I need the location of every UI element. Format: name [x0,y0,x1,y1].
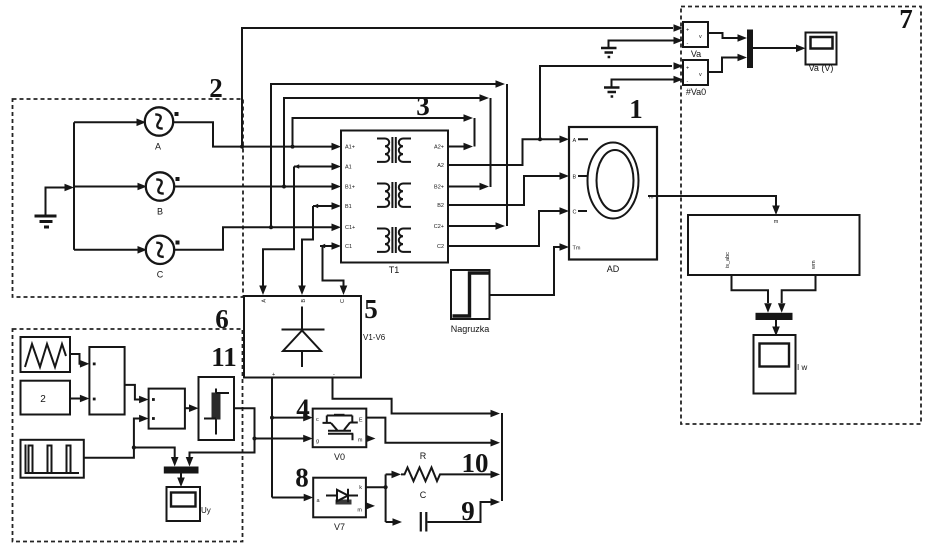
scope I w [754,335,808,394]
svg-text:C2: C2 [437,244,444,250]
svg-text:C: C [340,299,346,303]
wire comparator to sum [125,385,149,403]
svg-text:B2: B2 [437,203,444,209]
load block Nagruzka [451,270,490,334]
svg-text:B2+: B2+ [434,185,444,191]
wire Nagruzka to motor Tm [490,243,570,295]
V7 m port stub [366,502,376,510]
svg-text:B: B [301,299,307,303]
wire loop phase C to C2+ [271,80,507,230]
svg-text:B1: B1 [345,204,352,210]
wire pulse generator to sum and mux [84,415,179,467]
wire loop phase A to A2+ [293,114,475,150]
svg-text:Nagruzka: Nagruzka [451,324,490,334]
svg-text:A: A [573,138,577,144]
svg-text:A: A [155,142,161,152]
svg-text:#Va0: #Va0 [686,87,706,97]
wire source B to T1 B1+ [173,183,341,191]
T1 winding 3 [377,227,411,253]
svg-text:8: 8 [295,463,309,493]
svg-text:V7: V7 [334,522,345,532]
svg-text:E: E [359,418,363,424]
scope Va (V) [806,33,837,74]
svg-text:C1: C1 [345,244,352,250]
wire sawtooth to comparator [70,354,89,368]
wire R to node [443,471,500,479]
comparator block [89,347,124,415]
wire T1 C2 to motor C [448,207,569,246]
mux (voltages) [747,30,753,69]
svg-text:1: 1 [629,94,643,124]
svg-text:A: A [262,299,268,303]
svg-text:Uy: Uy [201,506,211,515]
wire T1 B2 to motor B [448,172,569,205]
svg-text:B: B [157,207,163,217]
wire sum to relay [185,404,199,412]
svg-text:is_abc: is_abc [725,252,731,268]
wire rectifier minus to node [333,378,501,418]
voltmeter #Va0 [683,60,708,97]
wire phase A to Va meter [242,24,683,146]
pulse generator [21,440,84,478]
svg-text:k: k [359,485,362,491]
svg-text:C: C [420,490,427,500]
scope Uy [167,487,211,521]
source C [146,236,180,280]
ground (source side) [35,184,75,227]
svg-text:A1+: A1+ [345,145,355,151]
wire C to node [428,498,501,522]
svg-text:+: + [686,66,689,72]
dashed subsystem box 6 (control) [13,329,243,542]
svg-text:I w: I w [797,363,807,372]
svg-text:-: - [687,79,689,85]
svg-text:V0: V0 [334,452,345,462]
svg-text:m: m [774,219,779,225]
svg-text:Va: Va [691,49,701,59]
svg-text:c: c [316,417,319,423]
mux (control signals) [164,467,199,474]
T1 winding 2 [377,182,411,208]
wire rectifier plus rail [270,378,313,502]
svg-text:2: 2 [40,394,46,405]
svg-text:C: C [157,270,164,280]
V7 diode icon [326,489,358,505]
svg-text:AD: AD [607,264,620,274]
mux (current and speed) [756,313,793,320]
svg-text:m: m [357,508,362,514]
svg-text:wm: wm [811,260,817,270]
svg-text:A2+: A2+ [434,145,444,151]
source A [145,107,179,151]
svg-text:+: + [272,372,275,378]
transformer T1 [341,131,448,276]
svg-text:+: + [686,28,689,34]
wire tap to T1 B1 and rectifier B [298,202,341,295]
transistor V0 [313,409,367,462]
resistor R [401,451,443,481]
wire T1 A2 to motor A [448,136,569,166]
svg-text:6: 6 [215,304,229,334]
wire constant to comparator [70,395,89,403]
rectifier V1-V6 [244,296,386,378]
wire loop phase B to B2+ [284,94,491,190]
voltmeter Va [683,22,708,59]
ground (Va minus) [601,37,683,57]
V0 m port stub [366,435,376,443]
capacitor C [420,490,427,532]
svg-text:-: - [687,41,689,47]
svg-text:-: - [333,372,335,378]
wire input bus [74,119,147,254]
svg-text:Va (V): Va (V) [809,63,834,73]
wire source C to T1 C1+ [173,224,341,250]
svg-text:Tm: Tm [573,246,581,252]
svg-text:V1-V6: V1-V6 [363,333,386,342]
svg-text:B1+: B1+ [345,185,355,191]
svg-text:C: C [573,210,577,216]
svg-text:v: v [699,72,702,78]
sawtooth generator [21,337,71,372]
dashed subsystem box 2 (three-phase source) [13,99,244,297]
dashed subsystem box 7 (measurements) [681,7,921,425]
wire relay to V0 gate and mux [186,408,313,466]
wire source A to T1 A1+ [172,122,341,150]
svg-text:A1: A1 [345,165,352,171]
svg-text:T1: T1 [389,265,400,275]
diode icon in rectifier [282,307,325,368]
svg-text:g: g [316,439,319,445]
svg-text:7: 7 [899,4,913,34]
diode V7 [313,478,366,532]
svg-text:C2+: C2+ [434,224,444,230]
ground (#Va0 minus) [604,76,683,97]
svg-text:2: 2 [209,73,223,103]
svg-text:m: m [358,438,363,444]
node bus [501,413,503,501]
wire tap to T1 C1 and rectifier C [320,242,347,295]
wire #Va0 to mux [708,54,747,72]
svg-text:11: 11 [211,342,237,372]
wire mux to scope Iw [772,320,780,336]
wire mux to scope Uy [177,474,185,488]
constant 2 [21,381,71,415]
svg-text:5: 5 [364,294,378,324]
wire V0 E to node [366,418,500,447]
wire Va to mux [708,33,747,42]
svg-text:R: R [420,451,427,461]
svg-text:3: 3 [416,91,430,121]
V0 GTO icon [323,414,358,440]
sum block [149,389,185,429]
svg-text:B: B [573,175,577,181]
wire tap to #Va0 meter [540,62,683,139]
wire motor m to demux [657,196,780,215]
relay block [199,377,235,440]
wire V7 k junction [366,471,402,526]
T1 winding 1 [377,137,411,163]
svg-text:C1+: C1+ [345,225,355,231]
wire demux outputs to mux [732,275,816,313]
induction motor AD [569,127,657,274]
svg-text:A2: A2 [437,163,444,169]
svg-text:v: v [699,34,702,40]
wire tap to T1 A1 and rectifier A [259,163,341,295]
source B [146,172,180,216]
wire mux to scope Va [753,45,806,53]
demux (machine measurement) [688,215,860,275]
